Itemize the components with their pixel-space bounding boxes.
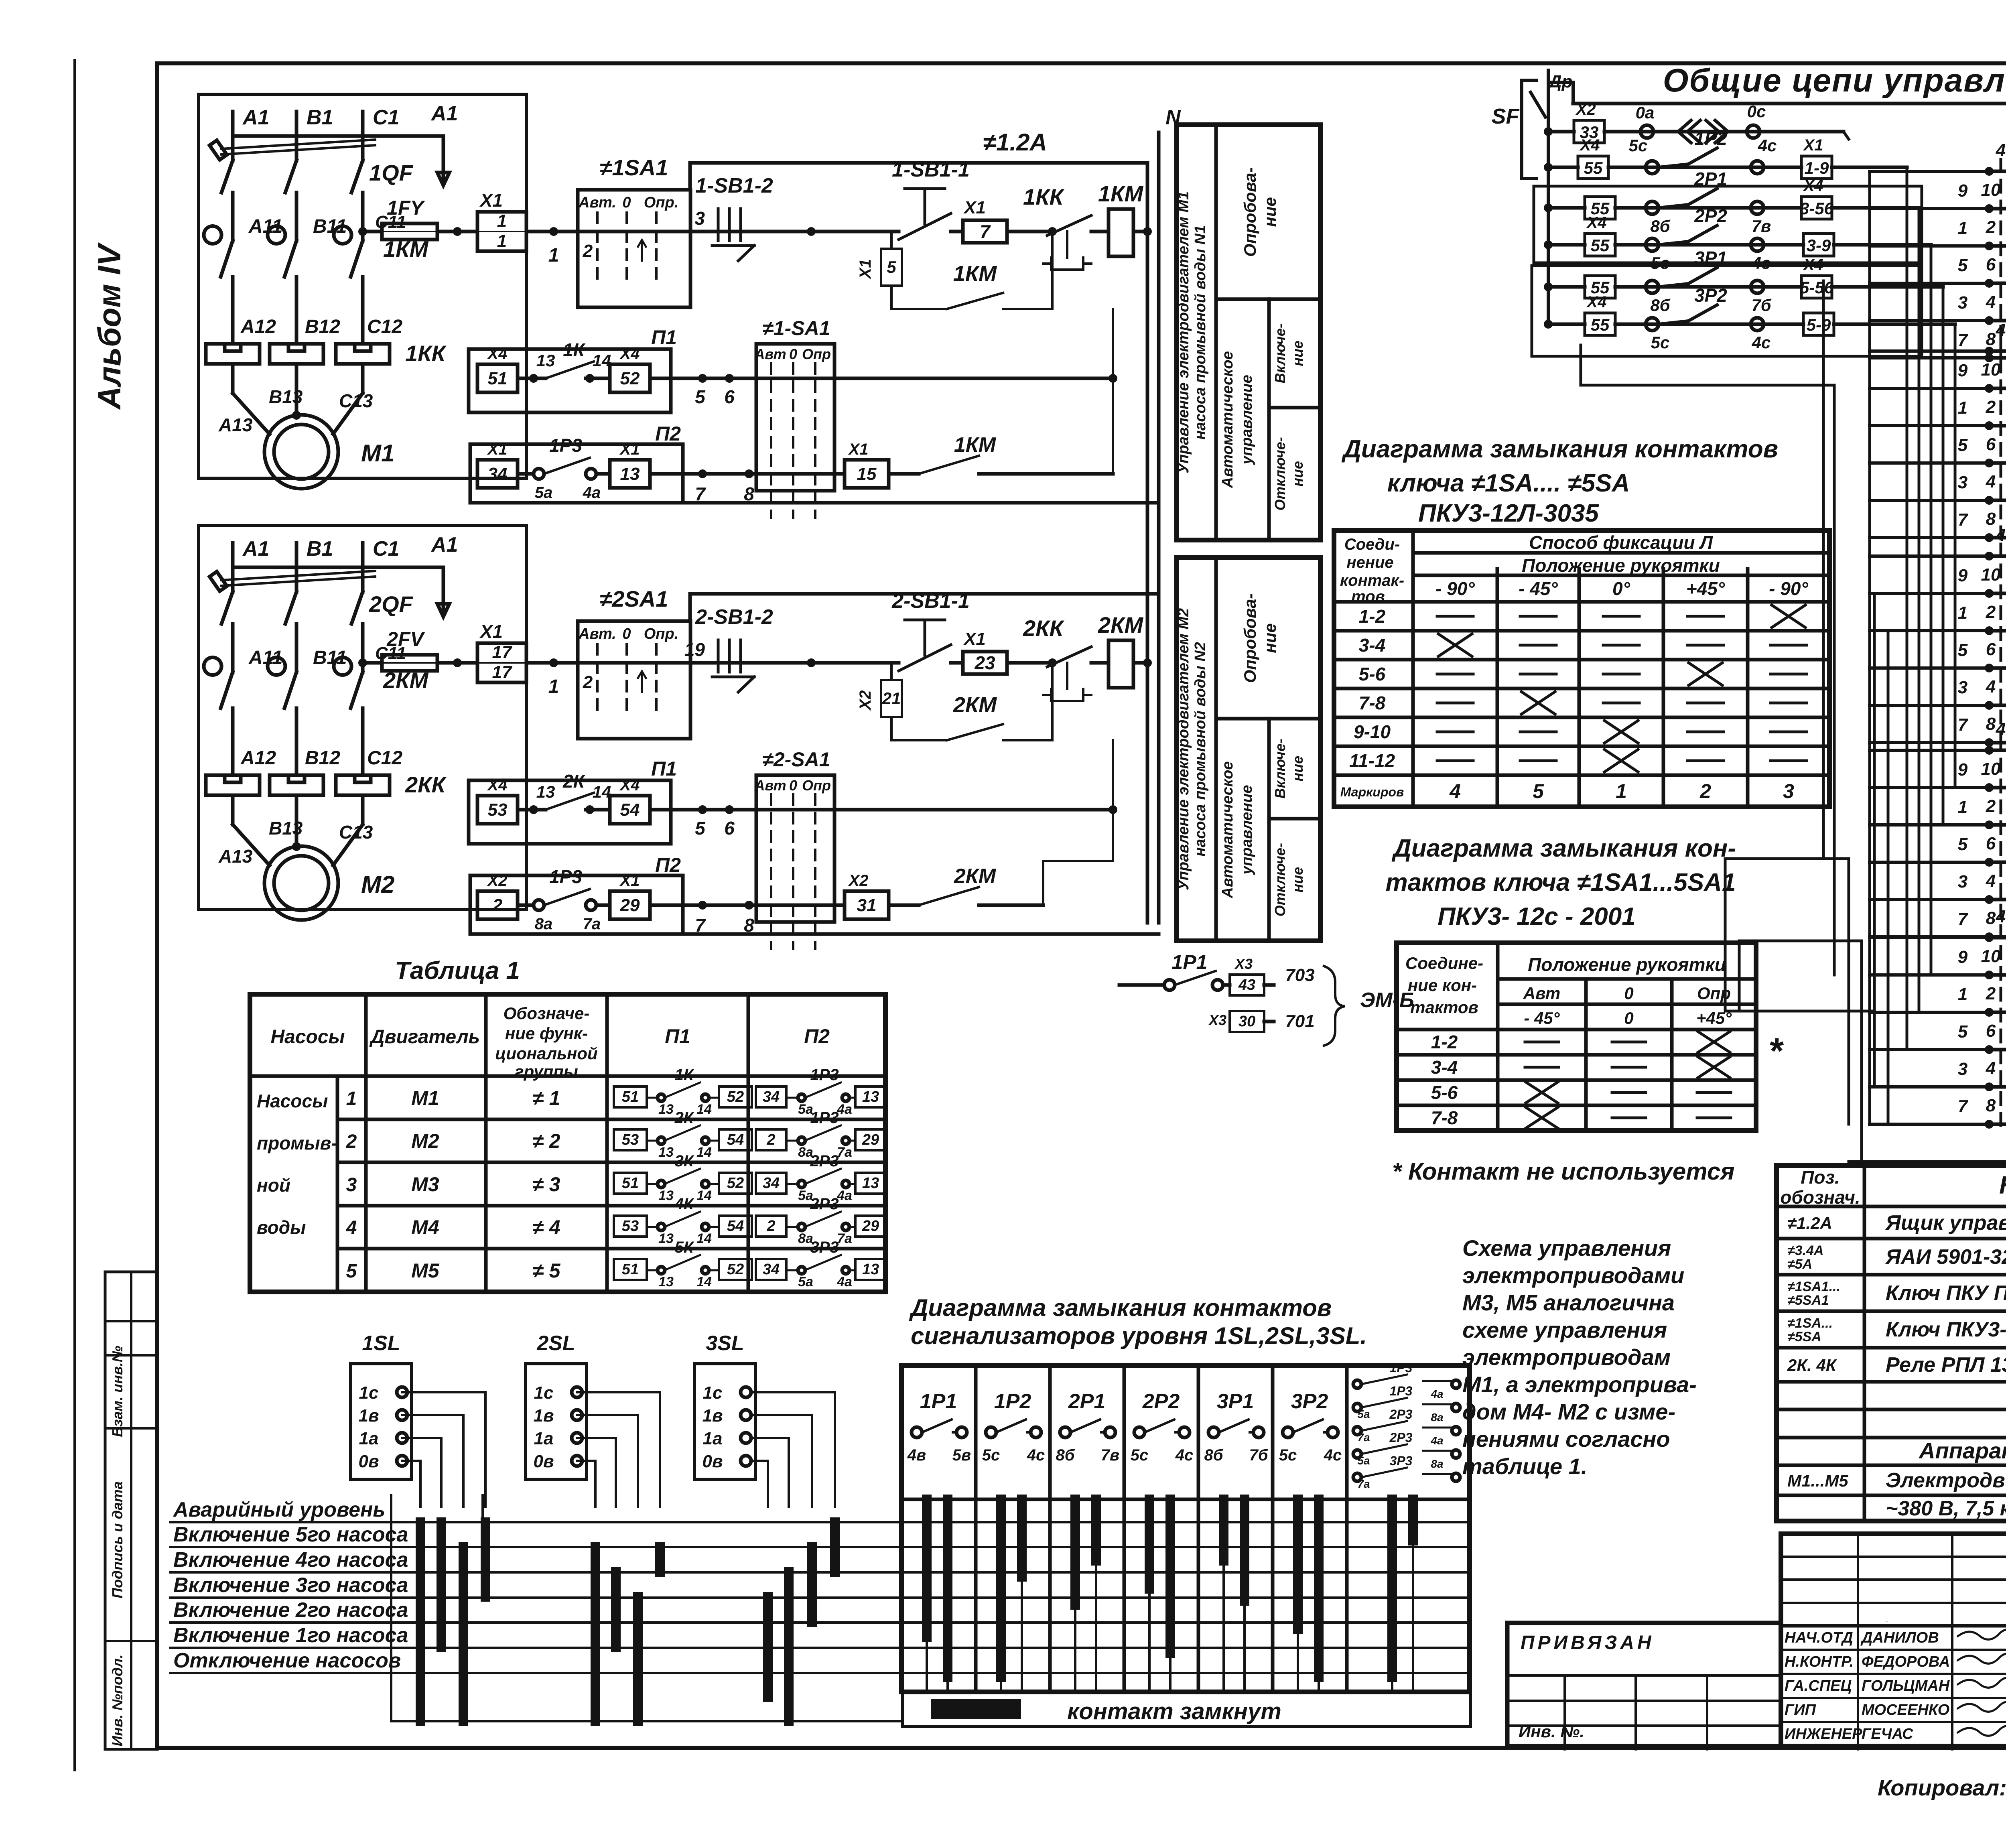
parts list table [1777,1166,2006,1521]
svg-text:52: 52 [620,369,640,388]
svg-text:Авт.: Авт. [578,625,616,642]
svg-text:4с: 4с [1175,1446,1194,1464]
brace EM-B [1324,966,1345,1046]
wire group row 4 [1988,170,2006,173]
connector X1 seal [890,232,893,249]
svg-text:П2: П2 [804,1025,830,1048]
svg-text:7а: 7а [583,915,601,933]
wire group row [1988,1085,2006,1089]
svg-text:9-10: 9-10 [1354,721,1391,742]
svg-text:5К: 5К [675,1239,694,1256]
wire contact drop [1219,1499,1228,1561]
svg-text:7б: 7б [1751,296,1771,315]
wire contact drop [1240,1499,1249,1601]
svg-text:Авт: Авт [1523,984,1561,1003]
motor leads [231,795,235,824]
svg-text:дом М4- М2 с изме-: дом М4- М2 с изме- [1462,1399,1675,1424]
svg-text:5а: 5а [535,484,553,502]
svg-text:Х4: Х4 [619,345,640,363]
connector X2 seal [890,663,893,680]
svg-text:1-2: 1-2 [1359,606,1386,627]
svg-text:4: 4 [1986,1058,1996,1078]
svg-text:0в: 0в [533,1452,554,1471]
svg-text:2SL: 2SL [536,1332,575,1355]
svg-text:3Р3: 3Р3 [1390,1454,1413,1468]
svg-text:В1: В1 [307,106,333,129]
svg-text:52: 52 [727,1088,744,1105]
svg-text:Насосы: Насосы [270,1026,345,1048]
svg-text:Способ фиксации Л: Способ фиксации Л [1529,532,1713,553]
svg-text:1К: 1К [675,1066,694,1084]
svg-text:ЭМ-Б: ЭМ-Б [1360,989,1414,1012]
svg-text:Х4: Х4 [1803,256,1823,274]
svg-text:3-4: 3-4 [1359,635,1385,656]
svg-text:циональной: циональной [495,1044,597,1063]
wire group row [1988,592,2006,595]
svg-text:3-56: 3-56 [1800,199,1834,218]
svg-text:3-4: 3-4 [1431,1057,1458,1078]
svg-text:Автоматическое: Автоматическое [1219,761,1236,898]
connector X:15 [845,460,889,488]
svg-text:7: 7 [1958,1097,1969,1116]
svg-text:обознач.: обознач. [1780,1187,1860,1208]
svg-text:8б: 8б [1204,1446,1223,1464]
circuit breaker 2QF [221,577,375,586]
contactor 1КМ main contacts [204,226,221,244]
wire sensor drop [577,1437,616,1439]
svg-text:Обозначе-: Обозначе- [504,1004,590,1023]
svg-text:П2: П2 [655,854,681,876]
svg-text:Х4: Х4 [1586,293,1607,311]
svg-text:М1: М1 [411,1087,439,1109]
svg-text:1Р3: 1Р3 [810,1066,839,1084]
svg-text:54: 54 [620,800,640,820]
svg-text:ключа ≠1SА.... ≠5SА: ключа ≠1SА.... ≠5SА [1387,469,1630,497]
svg-text:М2: М2 [361,871,394,898]
svg-text:Отключе-: Отключе- [1272,843,1288,916]
wire sensor drop [751,1391,835,1393]
contactor coil 1КМ [1109,209,1133,256]
svg-text:55: 55 [1591,315,1610,334]
svg-text:управление: управление [1239,375,1255,465]
svg-text:Аппаратура по месту: Аппаратура по месту [1918,1438,2006,1463]
svg-text:Х2: Х2 [848,872,869,889]
svg-text:13: 13 [620,464,640,484]
svg-text:4а: 4а [837,1102,852,1117]
svg-text:тактов ключа ≠1SА1...5SА1: тактов ключа ≠1SА1...5SА1 [1386,869,1736,896]
svg-text:8: 8 [1986,714,1996,734]
svg-text:Подпись и дата: Подпись и дата [109,1481,126,1598]
svg-text:2КМ: 2КМ [954,865,997,888]
svg-text:13: 13 [862,1175,879,1192]
svg-text:П1: П1 [665,1025,690,1048]
svg-text:2: 2 [1699,780,1711,802]
svg-text:9: 9 [1958,760,1968,780]
enclosure bottoms [683,501,1159,505]
svg-text:П1: П1 [651,757,677,780]
function table М1 [1177,125,1320,540]
svg-text:- 45°: - 45° [1519,578,1558,599]
svg-text:М1...М5: М1...М5 [1787,1471,1848,1490]
svg-text:3: 3 [1958,1059,1967,1079]
svg-text:34: 34 [488,464,508,484]
svg-text:6: 6 [1986,435,1996,454]
svg-text:1в: 1в [358,1406,379,1426]
title block [1781,1534,2006,1746]
svg-text:3: 3 [1958,678,1967,697]
svg-text:1КМ: 1КМ [953,262,997,286]
svg-text:≠5А: ≠5А [1787,1257,1812,1272]
svg-text:0в: 0в [358,1452,379,1471]
svg-text:2: 2 [1986,796,1996,816]
svg-text:М5: М5 [411,1259,440,1282]
svg-text:7: 7 [1958,330,1969,350]
svg-text:Положение рукоятки: Положение рукоятки [1528,954,1726,975]
svg-text:Х1: Х1 [619,872,640,889]
svg-text:≠2SA1: ≠2SA1 [600,586,668,611]
svg-text:4: 4 [1449,780,1461,802]
svg-text:ГОЛЬЦМАН: ГОЛЬЦМАН [1862,1677,1950,1694]
wire contact drop [996,1499,1006,1677]
svg-text:Авт.: Авт. [578,194,616,211]
wire group row [1988,424,2006,428]
wire sensor drop [751,1437,789,1439]
svg-text:1с: 1с [534,1383,554,1403]
svg-text:0в: 0в [702,1452,723,1471]
svg-text:1в: 1в [702,1406,723,1426]
svg-text:1Р3: 1Р3 [1390,1361,1413,1375]
svg-text:ПКУ3- 12с - 2001: ПКУ3- 12с - 2001 [1437,903,1636,930]
svg-text:8: 8 [1986,329,1996,349]
svg-text:ГИП: ГИП [1785,1702,1816,1718]
svg-text:3: 3 [1958,872,1967,892]
svg-text:55: 55 [1584,158,1603,177]
svg-text:5с: 5с [1629,136,1648,155]
svg-text:4: 4 [1986,677,1996,697]
svg-text:ной: ной [257,1175,290,1196]
svg-text:Х3: Х3 [1234,956,1253,972]
svg-text:6: 6 [1986,255,1996,274]
svg-text:Х1: Х1 [487,441,508,458]
svg-text:2Р2: 2Р2 [1694,205,1727,226]
svg-text:Включение 5го насоса: Включение 5го насоса [173,1523,408,1546]
svg-text:0а: 0а [1636,103,1655,122]
svg-text:4: 4 [346,1217,357,1239]
svg-text:51: 51 [622,1175,639,1192]
svg-text:5с: 5с [1651,333,1670,352]
svg-text:Наименование: Наименование [1999,1172,2006,1199]
svg-text:1Р3: 1Р3 [810,1109,839,1127]
relay row 3P2 [1544,320,1553,329]
svg-text:0: 0 [789,346,797,362]
svg-text:Х1: Х1 [1803,136,1823,154]
svg-text:Насосы: Насосы [257,1091,328,1111]
svg-text:6: 6 [1986,1021,1996,1041]
svg-text:14: 14 [696,1145,712,1160]
svg-text:4: 4 [1986,292,1996,312]
svg-text:1с: 1с [359,1383,379,1403]
svg-text:≠2-SA1: ≠2-SA1 [762,748,830,771]
svg-text:51: 51 [622,1088,639,1105]
svg-text:нениями согласно: нениями согласно [1462,1426,1670,1452]
svg-text:ние: ние [1289,867,1306,893]
svg-text:≠1SА1...: ≠1SА1... [1787,1279,1840,1294]
svg-text:13: 13 [536,351,555,370]
svg-text:1: 1 [1958,218,1967,238]
svg-text:1: 1 [548,676,559,697]
svg-text:15: 15 [857,464,877,484]
svg-text:13: 13 [658,1188,674,1203]
svg-text:34: 34 [763,1088,780,1105]
svg-text:3Р1: 3Р1 [1217,1390,1254,1413]
svg-text:2КМ: 2КМ [953,693,997,717]
svg-text:5: 5 [695,386,706,407]
svg-text:П2: П2 [655,422,681,445]
wire contact drop [1293,1499,1303,1629]
svg-text:1Р3: 1Р3 [549,866,582,887]
svg-text:2: 2 [1986,397,1996,417]
svg-text:55: 55 [1591,236,1610,255]
wire group row 4 [1988,936,2006,940]
aux box P1 pump 2 [469,780,671,844]
svg-text:51: 51 [488,369,508,388]
wire contact drop [1408,1499,1418,1541]
svg-text:5: 5 [1958,835,1968,854]
svg-text:2: 2 [1986,217,1996,237]
connector X3:43 [1230,975,1264,995]
svg-text:3SL: 3SL [706,1332,744,1355]
svg-text:1QF: 1QF [369,160,414,185]
svg-text:насоса промывной воды N2: насоса промывной воды N2 [1192,642,1209,857]
svg-text:52: 52 [727,1175,744,1192]
enclosure box pump 1 [199,94,526,478]
svg-text:0: 0 [789,777,797,794]
svg-text:Отключе-: Отключе- [1272,437,1288,510]
wire contact drop [1091,1499,1101,1561]
wire group row [1988,741,2006,745]
svg-text:Поз.: Поз. [1801,1167,1840,1188]
svg-text:6: 6 [1986,834,1996,853]
enclosure 2 top [690,592,1159,596]
svg-text:≠ 1: ≠ 1 [532,1087,560,1109]
svg-text:43: 43 [1238,977,1255,993]
svg-text:10: 10 [1981,759,2001,779]
svg-text:1КМ: 1КМ [954,433,997,457]
T1 row 3 P1 circuit [614,1173,647,1194]
svg-text:8б: 8б [1650,296,1670,315]
svg-text:2Р1: 2Р1 [1068,1390,1106,1413]
svg-text:Ключ ПКУ3- 12Л - 3035: Ключ ПКУ3- 12Л - 3035 [1886,1318,2006,1341]
svg-text:2Р2: 2Р2 [1142,1390,1180,1413]
svg-text:М1, а электроприва-: М1, а электроприва- [1462,1372,1697,1397]
wire group row [1988,499,2006,502]
svg-text:7б: 7б [1249,1446,1268,1464]
enclosure box pump 2 [199,526,526,910]
svg-text:5с: 5с [1131,1446,1149,1464]
svg-text:≠3.4А: ≠3.4А [1787,1243,1823,1258]
bus A1 B1 C1 [233,134,443,138]
svg-text:2КК: 2КК [1023,615,1065,641]
svg-text:2КМ: 2КМ [1098,612,1144,638]
svg-text:В12: В12 [305,316,340,337]
svg-text:ДАНИЛОВ: ДАНИЛОВ [1860,1629,1939,1646]
key switch 2SA1 box [578,621,690,739]
svg-text:5с: 5с [982,1446,1000,1464]
T1 row 5 P1 circuit [614,1259,647,1280]
svg-text:Диаграмма замыкания контакто: Диаграмма замыкания контактов [909,1294,1332,1321]
svg-text:ние функ-: ние функ- [505,1024,588,1043]
enclosure box 1.2A top [690,161,1145,165]
svg-text:8б: 8б [1650,217,1670,236]
wire bundle [1906,167,1909,1050]
svg-text:Авт: Авт [754,346,786,362]
svg-text:НАЧ.ОТД: НАЧ.ОТД [1785,1629,1853,1646]
svg-text:А12: А12 [240,316,276,337]
function table М2 [1177,558,1320,941]
svg-text:электроприводами: электроприводами [1462,1263,1684,1288]
svg-text:Х1: Х1 [963,629,986,649]
svg-text:Х1: Х1 [848,441,869,458]
svg-text:МОСЕЕНКО: МОСЕЕНКО [1862,1702,1949,1718]
svg-text:7в: 7в [1101,1446,1119,1464]
svg-text:2: 2 [766,1218,775,1235]
svg-text:21: 21 [882,689,901,708]
svg-text:4с: 4с [1752,333,1771,352]
svg-text:Привязан: Привязан [1886,1621,1888,1622]
svg-text:13: 13 [862,1261,879,1278]
svg-text:Управление электродвигателем М: Управление электродвигателем М1 [1175,191,1192,473]
svg-text:ние: ние [1261,623,1279,653]
svg-text:Инв. №.: Инв. №. [1519,1722,1584,1741]
closed contact marks [416,1522,425,1721]
svg-text:2-SB1-2: 2-SB1-2 [695,605,773,629]
svg-text:схеме управления: схеме управления [1462,1317,1667,1342]
svg-text:4: 4 [1996,907,2006,926]
svg-text:Двигатель: Двигатель [369,1026,480,1048]
svg-text:7: 7 [980,221,991,242]
svg-text:Включение 2го насоса: Включение 2го насоса [173,1598,408,1622]
N bus left [1146,163,1149,923]
wire row 1P2 [1544,163,1553,172]
svg-text:5с: 5с [1279,1446,1297,1464]
wire sensor drop [402,1460,420,1462]
svg-text:С1: С1 [373,106,399,129]
svg-text:ИНЖЕНЕР: ИНЖЕНЕР [1785,1726,1862,1742]
svg-text:34: 34 [763,1175,780,1192]
svg-text:4а: 4а [837,1274,852,1290]
svg-text:3Р3: 3Р3 [810,1239,839,1256]
svg-text:1: 1 [1616,780,1627,802]
wire contact drop [1017,1499,1027,1577]
wire sensor drop [577,1391,660,1393]
svg-text:3Р1: 3Р1 [1694,248,1727,268]
svg-text:2Р3: 2Р3 [810,1195,839,1213]
key switch lower 2-SA1 box [756,775,834,922]
svg-text:* Контакт не используется: * Контакт не используется [1392,1158,1735,1185]
svg-text:ГЕЧАС: ГЕЧАС [1862,1726,1913,1742]
level sensor 3SL [694,1364,755,1479]
svg-text:2: 2 [583,241,593,261]
svg-text:4а: 4а [583,484,601,502]
wire feeders [1581,384,1834,387]
svg-text:19: 19 [684,639,705,660]
svg-text:≠ 5: ≠ 5 [532,1259,560,1282]
key switch lower 1-SA1 box [756,344,834,491]
svg-text:54: 54 [727,1218,744,1235]
svg-text:14: 14 [696,1231,712,1246]
svg-text:Х4: Х4 [619,776,640,794]
motor leads [231,364,235,393]
svg-text:Включе-: Включе- [1272,323,1288,383]
svg-text:2К: 2К [674,1109,694,1127]
wire group row 4 [1988,349,2006,353]
svg-text:2: 2 [1986,602,1996,622]
T1 row 2 P2 circuit [756,1129,786,1150]
svg-text:Х1: Х1 [857,259,874,280]
svg-text:5а: 5а [1357,1408,1370,1420]
svg-text:1: 1 [1958,797,1967,817]
wire group row [1988,935,2006,939]
table A [1334,530,1829,807]
thermal relay 1КК heaters [206,344,260,364]
T1 row 4 P1 circuit [614,1216,647,1237]
wire group row [1988,823,2006,827]
svg-text:Соедине-: Соедине- [1405,954,1483,973]
svg-text:1а: 1а [359,1429,379,1448]
svg-text:Х1: Х1 [619,441,640,458]
legend closed contact [903,1692,1470,1726]
svg-text:А1: А1 [430,533,458,556]
svg-text:Включение 1го насоса: Включение 1го насоса [173,1624,408,1647]
wire contact drop [1387,1499,1397,1677]
svg-text:4: 4 [1986,472,1996,491]
T1 row 3 P2 circuit [756,1173,786,1194]
svg-text:А12: А12 [240,747,276,769]
svg-text:0: 0 [622,625,631,642]
connector X1 pump 1 [477,212,526,251]
svg-text:≠1-SA1: ≠1-SA1 [762,317,830,339]
svg-text:2Р3: 2Р3 [1389,1407,1413,1422]
svg-text:4с: 4с [1758,136,1777,155]
svg-text:5: 5 [695,818,706,839]
svg-text:4: 4 [1996,320,2006,340]
svg-text:2FV: 2FV [386,628,425,650]
svg-text:контак-: контак- [1340,572,1404,589]
svg-text:10: 10 [1981,565,2001,585]
svg-text:Х4: Х4 [487,345,508,363]
svg-text:703: 703 [1285,965,1314,985]
svg-text:3-9: 3-9 [1807,236,1831,255]
svg-text:1: 1 [1958,603,1967,623]
svg-text:Х3: Х3 [1208,1012,1226,1028]
P relay contact table [901,1365,1470,1692]
svg-text:*: * [1768,1031,1784,1071]
connector X1:7 [963,220,1007,243]
wire row 0a-0c [1544,127,1553,136]
bus A1 B1 C1 [233,566,443,569]
control bus wire [1547,70,1550,324]
svg-text:Электродвигатель 4А112М2У3: Электродвигатель 4А112М2У3 [1886,1469,2006,1492]
svg-text:3: 3 [694,208,705,229]
svg-text:- 45°: - 45° [1524,1009,1560,1028]
svg-text:Х4: Х4 [487,776,508,794]
svg-text:Маркиров: Маркиров [1340,785,1404,799]
svg-text:≠1SA1: ≠1SA1 [600,155,668,180]
svg-text:8а: 8а [1431,1458,1443,1470]
svg-text:Управление электродвигателем М: Управление электродвигателем М2 [1175,608,1192,890]
svg-text:7в: 7в [1752,217,1771,236]
svg-text:6: 6 [724,386,735,407]
